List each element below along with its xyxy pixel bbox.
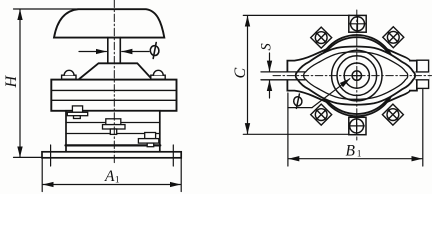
svg-text:H: H <box>3 75 20 89</box>
label phi (left view) <box>150 43 160 59</box>
vertical centerline of right view <box>356 10 358 140</box>
circle r25 <box>332 50 382 100</box>
dimension S arrows <box>269 53 271 71</box>
handle lever blade (S measured part) <box>261 72 296 80</box>
circle r20 <box>337 56 377 96</box>
wire: H bottom extension line <box>14 156 43 158</box>
terminal screw 3 <box>138 133 158 147</box>
wire: mounting hole centerline right <box>172 145 174 166</box>
dimension B1 line with arrows <box>289 158 422 160</box>
svg-text:1: 1 <box>115 176 120 186</box>
centerline of left view <box>113 0 115 165</box>
handle lens (eye shape) <box>296 46 415 104</box>
right side tab <box>416 60 429 88</box>
wire: stack divider 2 <box>66 133 160 135</box>
wire: mounting hole centerline left <box>50 145 52 166</box>
bottom square screw <box>349 117 366 134</box>
wire: C bottom extension line <box>243 133 348 135</box>
svg-text:1: 1 <box>357 150 362 160</box>
wire: body divider line 1 <box>51 89 176 91</box>
shaft <box>107 38 109 64</box>
svg-text:A: A <box>104 168 115 185</box>
label phi (right view) <box>293 94 302 108</box>
switch body outline: left border <box>287 49 327 102</box>
mounting flange trapezoid <box>79 63 152 79</box>
circle r12.6 <box>344 63 369 88</box>
wire: stack divider 3 (thick) <box>66 144 161 146</box>
wire: B1 extension line left <box>287 93 289 166</box>
dimension H line with arrows <box>19 10 21 157</box>
screw bump left <box>62 70 76 79</box>
corner screw: top-right diamond <box>383 27 404 48</box>
wire: C top extension line <box>243 14 349 16</box>
dimension phi arrows to shaft <box>79 51 106 53</box>
shaft circle cross ticks <box>356 71 358 81</box>
switch body outline: bottom boss arc circle <box>317 37 396 116</box>
wire: B1 extension line right <box>422 90 424 167</box>
terminal screw 1 <box>67 106 87 119</box>
phi leader with arrow (right view) <box>288 107 312 109</box>
switch body outline: right border <box>387 49 417 102</box>
svg-text:B: B <box>346 143 356 160</box>
top square screw <box>349 15 366 32</box>
svg-text:C: C <box>232 68 249 79</box>
corner screw: bottom-left diamond <box>311 104 332 125</box>
corner screw: bottom-right diamond <box>382 104 403 125</box>
handle lens inner rim <box>304 52 408 99</box>
dimension C line with arrows <box>247 16 249 134</box>
wire: blade edge lines <box>261 71 306 73</box>
screw bump right <box>151 70 165 79</box>
shaft circle r4.7 <box>352 71 361 80</box>
horizontal centerline of right view <box>273 75 432 77</box>
svg-text:S: S <box>259 43 275 51</box>
wire: H top extension line <box>14 8 79 10</box>
knob dome (handle) <box>54 9 164 37</box>
upper body block <box>51 80 176 111</box>
wire: A1 extension line right <box>180 159 182 192</box>
base plate <box>42 152 181 158</box>
dimension A1 line with arrows <box>43 184 180 186</box>
wire: body divider line 2 <box>51 99 176 101</box>
wire: stack divider 1 <box>66 122 160 124</box>
stacked switch sections <box>66 111 160 152</box>
terminal screw 2 <box>103 119 126 135</box>
switch body outline: top boss arc circle <box>317 35 396 114</box>
corner screw: top-left diamond <box>311 27 332 48</box>
wire: A1 extension line left <box>41 159 43 192</box>
